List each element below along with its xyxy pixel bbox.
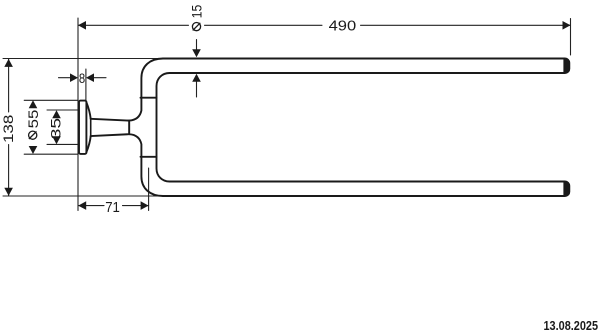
wire 490 dimension line [78, 24, 571, 26]
arrowhead 8-dim left [70, 73, 78, 82]
svg-text:8: 8 [79, 70, 85, 86]
wire 8-dim leader lines [59, 77, 107, 79]
wire diameter-55 top extension line [24, 99, 77, 101]
wire 138 top extension line [3, 58, 158, 60]
arrowhead 138 bottom [4, 188, 13, 196]
wall flange plate [79, 101, 86, 154]
cone base rim line [90, 119, 92, 136]
wire 138 dimension line [8, 59, 10, 196]
bar end cap top [563, 59, 569, 73]
fork hub outer contour [129, 59, 163, 197]
wire 71-dim right extension line [148, 168, 150, 211]
wire diameter-35 top extension line [47, 109, 78, 111]
arrowhead diameter-35 top [52, 110, 61, 118]
svg-text:138: 138 [0, 114, 16, 143]
fork joint tick top [141, 97, 157, 99]
arrowhead 490 right [563, 21, 571, 30]
arrowhead 71 right [141, 201, 149, 210]
wire diameter-55 bottom extension line [24, 153, 77, 155]
wire 490 right extension line [570, 19, 572, 56]
arrowhead diameter-15 down [192, 49, 201, 57]
arrowhead 8-dim right [86, 73, 94, 82]
arrowhead diameter-15 up [192, 74, 201, 82]
svg-text:13.08.2025: 13.08.2025 [544, 319, 599, 333]
svg-text:35: 35 [48, 118, 64, 140]
towel bar upper and lower rails with fork inner contour [157, 59, 570, 197]
arrowhead diameter-35 bottom [52, 136, 61, 144]
arrowhead diameter-55 top [29, 100, 38, 108]
neck rim line [128, 121, 130, 135]
wire wall extension line [77, 18, 79, 211]
cone silhouette top [91, 119, 130, 121]
wire 138 bottom extension line [3, 195, 158, 197]
wire diameter-35 bottom extension line [47, 143, 78, 145]
svg-text:15: 15 [188, 5, 204, 19]
arrowhead diameter-55 bottom [29, 146, 38, 154]
wire 8-dim right extension line [85, 69, 87, 100]
arrowhead 490 left [78, 21, 86, 30]
wire diameter-15 arrow stems [196, 40, 198, 98]
svg-text:490: 490 [329, 19, 357, 35]
diameter symbol of diameter-55 [29, 131, 37, 139]
arrowhead 138 top [4, 59, 13, 67]
cone steep flare top [86, 102, 90, 119]
svg-text:71: 71 [105, 200, 120, 216]
cone silhouette bottom [91, 134, 130, 136]
wire 71 dimension line [78, 205, 148, 207]
cone steep flare bottom [86, 136, 90, 152]
arrowhead 71 left [78, 201, 86, 210]
svg-text:55: 55 [25, 109, 41, 128]
diameter symbol of diameter-15 [192, 23, 200, 31]
fork joint tick bottom [141, 156, 157, 158]
bar end cap bottom [563, 182, 569, 196]
